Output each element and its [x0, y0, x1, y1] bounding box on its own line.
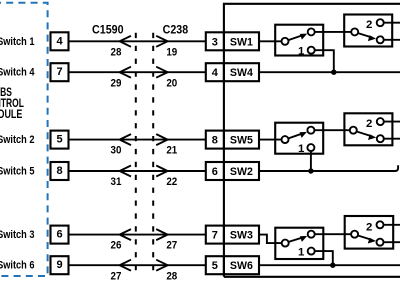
svg-text:27: 27 — [166, 240, 177, 252]
connector C238 dashed line — [152, 33, 154, 271]
pin box 4 (ABS module) — [51, 32, 69, 50]
junction dot on SW6 wire — [330, 263, 335, 268]
svg-text:SW4: SW4 — [230, 67, 253, 79]
wire SW2 to right edge with upturn — [259, 165, 398, 171]
svg-text:1: 1 — [298, 45, 305, 57]
row2 connector arrows — [120, 67, 131, 78]
wire SW3 box to contact box (jog down) — [259, 235, 282, 244]
contact circle B3 common — [351, 231, 358, 238]
connector C1590 dashed line — [135, 33, 137, 271]
svg-text:2: 2 — [366, 19, 372, 31]
switch module box (right component outline) — [224, 4, 400, 277]
svg-text:SW5: SW5 — [230, 135, 253, 147]
svg-text:9: 9 — [56, 259, 62, 271]
wire row2: pin7 to SW4 — [69, 71, 206, 73]
pin box 8 SW5 — [206, 131, 259, 149]
lever arrow B3 — [358, 236, 372, 240]
wire SW4 to right edge — [259, 71, 400, 73]
svg-text:28: 28 — [111, 46, 122, 58]
contact box B2 — [344, 113, 392, 145]
svg-text:C238: C238 — [163, 22, 189, 36]
svg-text:1: 1 — [298, 246, 305, 258]
contact box A3 — [275, 228, 323, 259]
svg-text:5: 5 — [56, 134, 62, 146]
svg-text:1: 1 — [298, 143, 305, 155]
svg-text:2: 2 — [366, 221, 372, 233]
pin box 6 — [51, 226, 69, 244]
contact circle B3 terminal 2 — [377, 221, 384, 228]
svg-text:31: 31 — [111, 176, 122, 188]
svg-text:26: 26 — [111, 240, 122, 252]
pin box 5 SW6 — [206, 256, 259, 274]
contact circle A1 upper — [308, 28, 315, 35]
lever arrow A2 — [288, 133, 303, 138]
contact circle A3 terminal 1 — [308, 248, 315, 255]
svg-text:Switch 2: Switch 2 — [0, 134, 35, 146]
row5 connector arrows — [120, 229, 131, 240]
contact circle B2 common — [350, 127, 357, 134]
wire B3 terminal 2 to edge — [384, 224, 400, 226]
svg-text:Switch 3: Switch 3 — [0, 229, 35, 241]
row1 connector arrows — [120, 36, 131, 47]
pin box 3 SW1 — [206, 32, 259, 50]
svg-text:Switch 5: Switch 5 — [0, 165, 35, 177]
svg-text:30: 30 — [111, 145, 122, 157]
wire SW6 to right edge — [259, 264, 400, 266]
contact circle A3 common — [282, 240, 289, 247]
contact box B3 — [345, 216, 394, 249]
svg-text:Switch 6: Switch 6 — [0, 260, 35, 272]
svg-text:8: 8 — [212, 135, 218, 147]
pin box 4 SW4 — [206, 63, 259, 81]
wire A1 terminal1 to SW4 net — [315, 50, 334, 72]
row6 connector arrows — [120, 260, 131, 271]
contact circle A2 terminal 1 — [307, 144, 314, 151]
wire SW1 box to contact box — [259, 40, 281, 42]
svg-text:SW3: SW3 — [230, 230, 253, 242]
row4 connector arrows — [120, 166, 131, 177]
svg-text:4: 4 — [212, 67, 219, 79]
contact box B1 — [344, 15, 392, 47]
svg-text:Switch 4: Switch 4 — [0, 67, 35, 79]
wire row4: pin8 to SW2 — [69, 170, 206, 172]
wire row1: pin4 to SW1 — [69, 40, 206, 42]
contact circle B3 lower — [377, 239, 384, 246]
contact circle A2 upper — [307, 127, 314, 134]
contact circle B1 lower — [377, 36, 384, 43]
wire row5: pin6 to SW3 — [69, 234, 206, 236]
svg-text:21: 21 — [166, 145, 177, 157]
lever arrow B1 — [358, 33, 372, 37]
svg-text:SW6: SW6 — [230, 260, 253, 272]
pin box 7 SW3 — [206, 226, 259, 244]
wire B2 lower to edge — [384, 138, 400, 140]
pin box 5 — [51, 131, 69, 149]
lever arrow B2 — [357, 132, 373, 137]
contact circle A1 terminal 1 — [308, 47, 315, 54]
contact circle B1 common — [351, 28, 358, 35]
pin box 9 — [51, 256, 69, 274]
contact circle B2 lower — [377, 135, 384, 142]
svg-text:20: 20 — [166, 77, 177, 89]
svg-text:5: 5 — [212, 260, 218, 272]
lever arrow A3 — [289, 237, 304, 242]
svg-text:19: 19 — [166, 46, 177, 58]
lever arrow A1 — [288, 35, 303, 40]
contact circle B1 terminal 2 — [377, 19, 384, 26]
wire A1 common to B1 — [311, 31, 355, 33]
junction dot on SW4 wire — [331, 70, 336, 75]
contact circle B2 terminal 2 — [377, 118, 384, 125]
svg-text:4: 4 — [56, 35, 63, 47]
svg-text:SW1: SW1 — [230, 36, 253, 48]
svg-text:2: 2 — [366, 118, 372, 130]
svg-text:7: 7 — [212, 230, 218, 242]
svg-text:29: 29 — [111, 77, 122, 89]
contact circle A2 common — [282, 136, 289, 143]
wire A2 terminal1 down to SW2 net — [310, 151, 312, 171]
svg-text:Switch 1: Switch 1 — [0, 36, 35, 48]
svg-text:27: 27 — [111, 270, 122, 282]
wire A3 common to B3 — [311, 233, 354, 235]
svg-text:SW2: SW2 — [230, 166, 253, 178]
svg-text:6: 6 — [212, 166, 218, 178]
contact box A1 — [275, 25, 323, 56]
svg-text:3: 3 — [212, 36, 218, 48]
wire row3: pin5 to SW5 — [69, 139, 206, 141]
pin box 6 SW2 — [206, 162, 259, 180]
svg-text:22: 22 — [166, 176, 177, 188]
contact circle A3 upper — [308, 231, 315, 238]
svg-text:28: 28 — [166, 270, 177, 282]
wire A3 terminal1 to SW6 net — [315, 251, 333, 265]
wire B3 lower to edge — [384, 241, 400, 243]
wire row6: pin9 to SW6 — [69, 264, 206, 266]
svg-text:C1590: C1590 — [92, 22, 124, 36]
contact circle A1 common — [282, 38, 289, 45]
switch module bottom edge — [224, 276, 400, 278]
wire SW5 box to contact box — [259, 139, 281, 141]
svg-text:8: 8 — [56, 165, 62, 177]
wire B2 terminal 2 to edge — [384, 121, 400, 123]
pin box 7 — [51, 63, 69, 81]
row3 connector arrows — [120, 134, 131, 145]
junction dot on SW2 wire — [308, 168, 313, 173]
pin box 8 — [51, 162, 69, 180]
wire B1 lower to edge — [384, 39, 400, 41]
svg-text:7: 7 — [56, 66, 62, 78]
wire A2 common to B2 — [311, 129, 353, 131]
contact box A2 — [275, 123, 323, 154]
svg-text:6: 6 — [56, 229, 62, 241]
wire B1 terminal 2 to edge — [384, 22, 400, 24]
ABS control module boundary (blue dashed) — [0, 3, 48, 276]
svg-text:MODULE: MODULE — [0, 108, 23, 121]
